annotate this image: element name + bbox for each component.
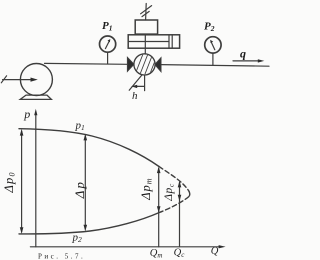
inlet break slash: [1, 76, 6, 83]
svg-text:p2: p2: [72, 231, 83, 244]
actuator cylinder: [128, 35, 179, 48]
svg-text:Δp0: Δp0: [2, 171, 17, 193]
flow arrow q: [233, 60, 260, 62]
valve stem: [144, 34, 146, 54]
wire pipe right: [161, 65, 269, 67]
dpm arrow + Qm line: [158, 169, 160, 247]
h arrow: [134, 85, 144, 87]
valve stroke h lines: [144, 75, 146, 90]
dp arrow: [84, 136, 86, 229]
signal line with slashes: [145, 4, 148, 21]
svg-text:P1: P1: [102, 20, 112, 33]
pump base: [20, 95, 51, 99]
curve upper solid: [19, 129, 159, 167]
valve right triangle: [155, 58, 161, 72]
gauge P1: [100, 36, 116, 52]
pump circle: [20, 64, 52, 96]
gauge P1 stem: [107, 53, 109, 64]
svg-text:q: q: [240, 46, 246, 60]
dpg arrow + Qg line: [179, 183, 181, 247]
svg-text:Q: Q: [211, 246, 219, 257]
svg-text:Δp: Δp: [72, 180, 87, 199]
svg-text:p1: p1: [75, 119, 85, 132]
gauge P2 stem: [212, 53, 214, 65]
valve left triangle: [127, 57, 134, 71]
pump inlet arrow: [3, 79, 33, 81]
gauge P2: [205, 37, 221, 53]
valve hatching: [136, 54, 157, 75]
curve upper dashed: [159, 167, 189, 192]
p axis: [35, 113, 37, 247]
wire pipe left: [45, 62, 128, 65]
dp0 arrow: [21, 131, 23, 232]
svg-text:P2: P2: [204, 21, 215, 34]
svg-text:Δpc: Δpc: [163, 183, 175, 202]
curve nose: [188, 191, 191, 196]
svg-text:Рис. 5.7.: Рис. 5.7.: [38, 253, 85, 260]
svg-text:Δpm: Δpm: [139, 177, 154, 200]
svg-text:Qc: Qc: [174, 248, 186, 260]
Q axis: [30, 246, 221, 248]
svg-text:p: p: [23, 107, 30, 121]
valve body: [134, 54, 155, 75]
positioner box: [135, 20, 157, 34]
svg-text:Qm: Qm: [150, 248, 163, 259]
curve lower dashed: [159, 197, 189, 213]
curve lower solid: [19, 213, 159, 234]
svg-text:h: h: [132, 90, 138, 102]
